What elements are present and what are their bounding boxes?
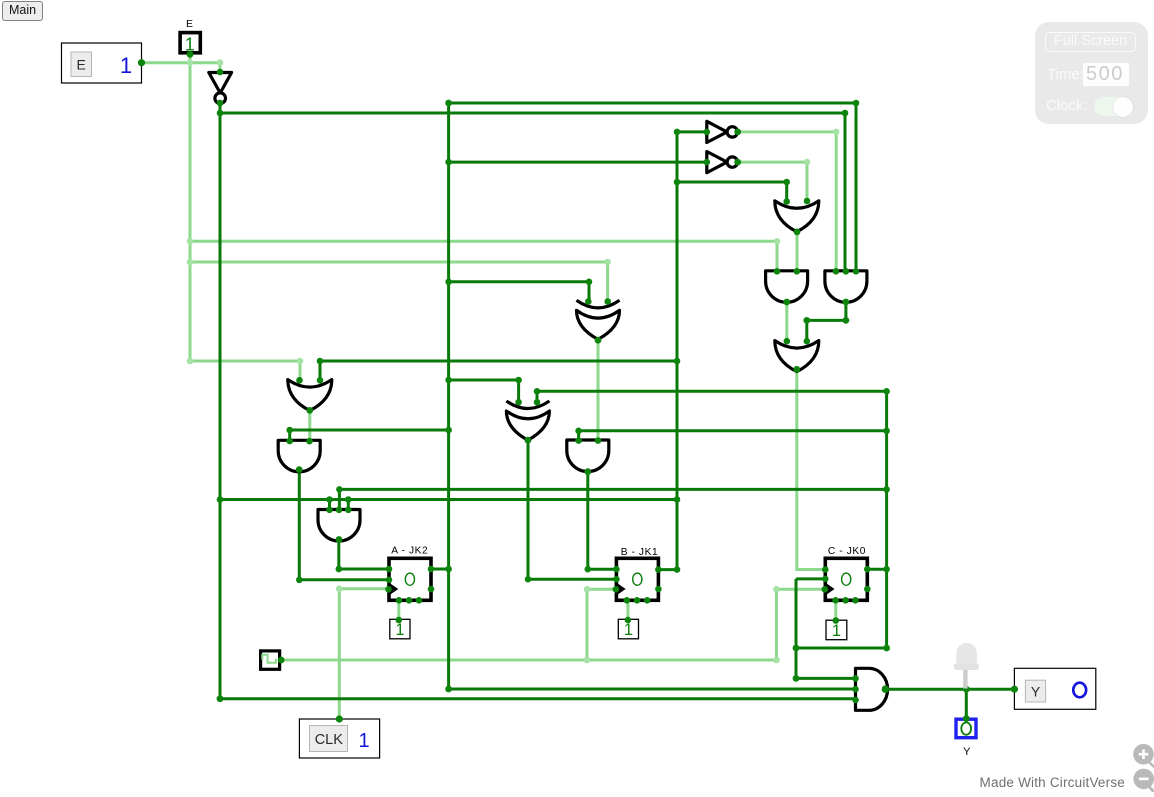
svg-text:Y: Y (1031, 684, 1041, 700)
svg-text:1: 1 (832, 622, 841, 640)
svg-text:1: 1 (358, 730, 369, 752)
svg-text:E: E (77, 57, 86, 73)
svg-text:CLK: CLK (315, 732, 344, 748)
svg-text:1: 1 (395, 621, 404, 639)
svg-text:B - JK1: B - JK1 (621, 547, 659, 558)
svg-text:A - JK2: A - JK2 (391, 546, 428, 557)
svg-text:Y: Y (963, 746, 971, 758)
svg-text:E: E (186, 18, 193, 30)
svg-text:1: 1 (120, 53, 132, 78)
svg-text:C - JK0: C - JK0 (828, 546, 866, 557)
svg-text:1: 1 (624, 621, 633, 639)
